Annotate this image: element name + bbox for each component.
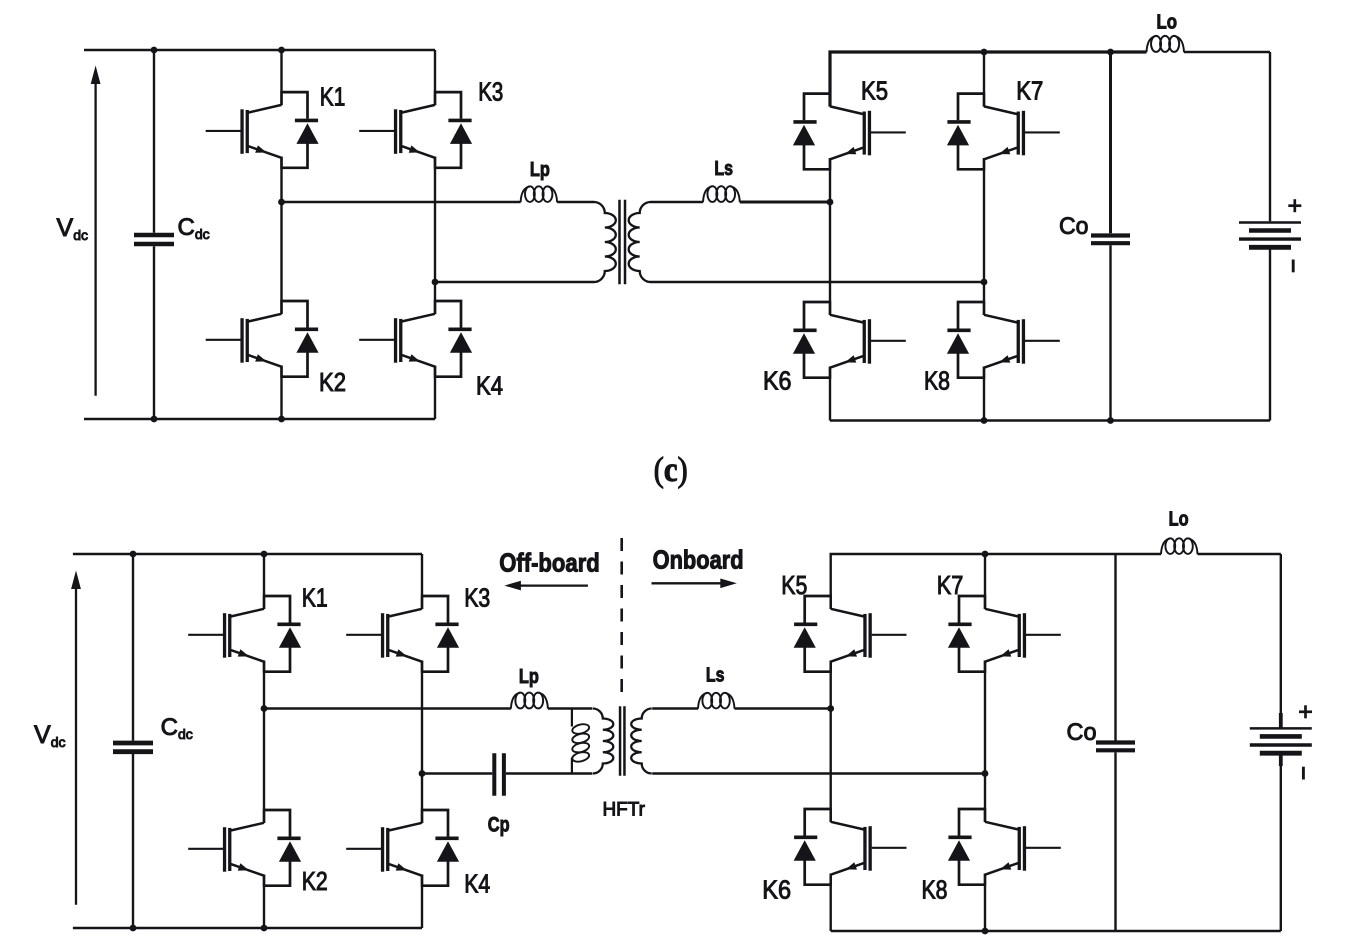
svg-text:Lo: Lo <box>1169 508 1189 531</box>
svg-text:K8: K8 <box>924 366 950 396</box>
svg-text:K3: K3 <box>478 77 503 107</box>
svg-text:Off-board: Off-board <box>499 548 600 578</box>
svg-text:Ls: Ls <box>714 157 733 180</box>
svg-text:Onboard: Onboard <box>653 545 744 575</box>
svg-text:K5: K5 <box>861 75 888 105</box>
svg-text:Lp: Lp <box>519 665 539 688</box>
svg-text:K4: K4 <box>476 371 503 401</box>
svg-text:Co: Co <box>1067 719 1097 746</box>
svg-text:(c): (c) <box>654 450 688 489</box>
svg-text:K5: K5 <box>781 570 807 600</box>
svg-text:K1: K1 <box>320 81 346 111</box>
svg-text:HFTr: HFTr <box>603 800 646 821</box>
svg-text:Lp: Lp <box>530 158 550 181</box>
svg-text:K2: K2 <box>319 367 346 397</box>
svg-text:K7: K7 <box>937 570 964 600</box>
svg-text:K6: K6 <box>763 366 792 396</box>
svg-text:K4: K4 <box>464 869 490 899</box>
svg-text:K3: K3 <box>464 582 490 612</box>
svg-text:Lo: Lo <box>1157 11 1178 34</box>
svg-text:Co: Co <box>1059 213 1089 240</box>
svg-text:Cp: Cp <box>488 814 510 837</box>
svg-text:K8: K8 <box>922 875 948 905</box>
svg-text:K7: K7 <box>1016 75 1043 105</box>
svg-text:K2: K2 <box>302 866 328 896</box>
svg-text:K6: K6 <box>762 875 791 905</box>
svg-text:Ls: Ls <box>706 664 725 687</box>
svg-text:K1: K1 <box>302 582 328 612</box>
